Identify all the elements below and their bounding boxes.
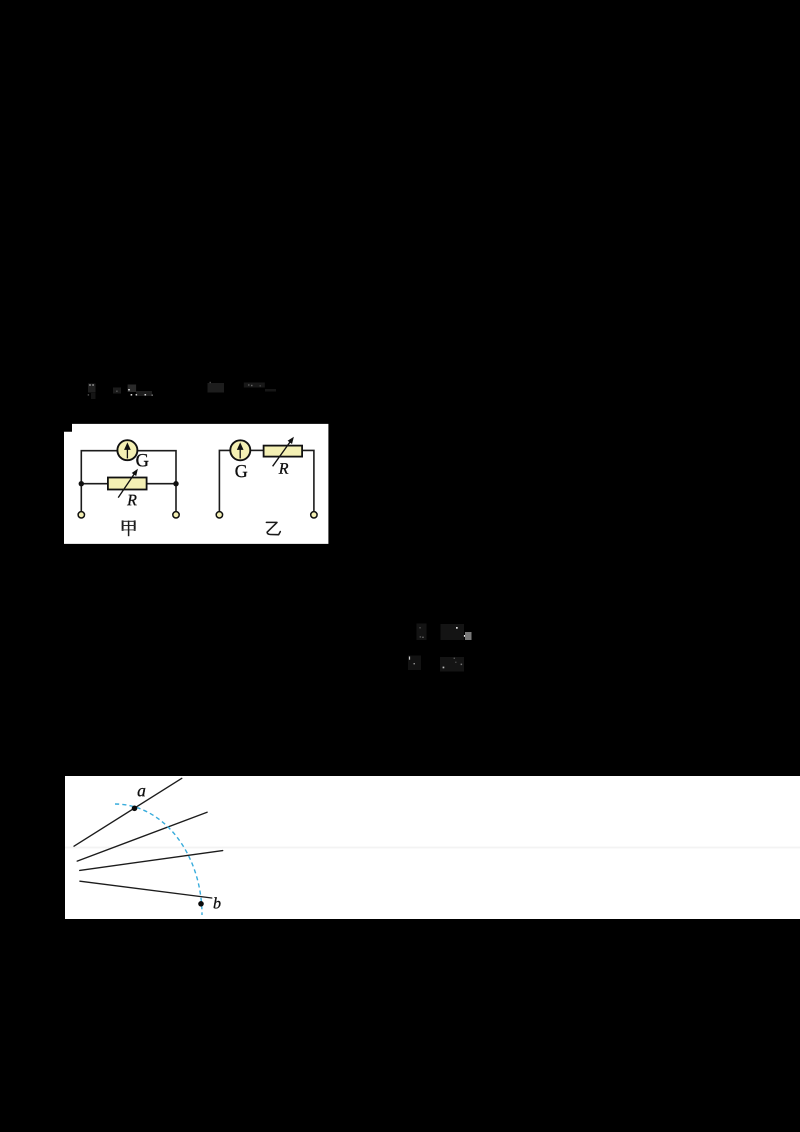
svg-text:a: a xyxy=(137,780,146,800)
svg-text:R: R xyxy=(278,461,289,478)
svg-text:b: b xyxy=(213,895,221,912)
svg-text:R: R xyxy=(126,492,137,509)
svg-text:G: G xyxy=(235,461,248,481)
svg-text:G: G xyxy=(136,451,149,471)
